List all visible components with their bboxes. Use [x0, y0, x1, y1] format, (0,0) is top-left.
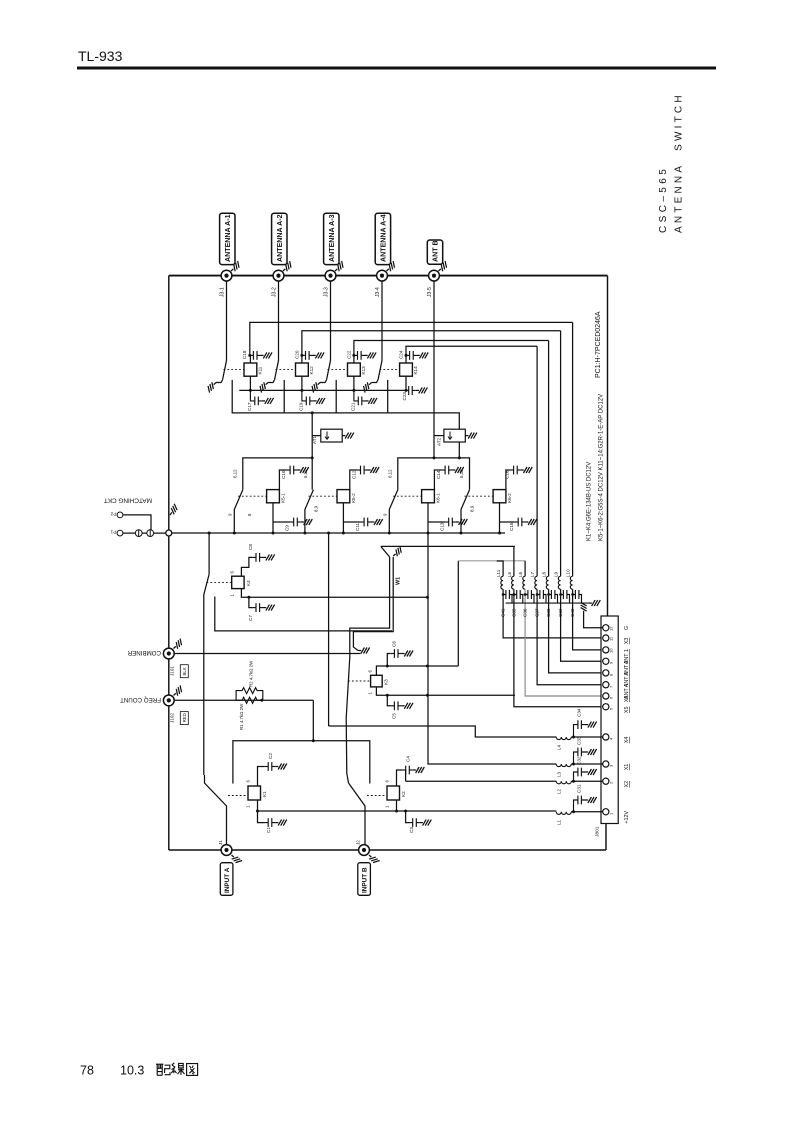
svg-text:C3: C3	[409, 827, 414, 833]
svg-text:AT1: AT1	[312, 435, 317, 444]
junction dot x427 y597	[426, 596, 429, 599]
net bus3 to pin ANT3	[354, 341, 549, 356]
relay cell K3	[346, 641, 515, 719]
antenna label box ANTENNA A-3	[324, 213, 339, 264]
capacitor C31	[574, 784, 586, 812]
svg-text:C23: C23	[402, 392, 407, 401]
svg-text:L8: L8	[542, 571, 547, 577]
wire K1 bottom to rail	[257, 800, 259, 811]
input B label box	[358, 863, 371, 896]
capacitor C11	[361, 518, 372, 527]
dotted link K1	[228, 795, 248, 797]
connector J1 INPUT A	[221, 845, 232, 856]
svg-text:ANTENNA SWITCH: ANTENNA SWITCH	[674, 92, 685, 233]
svg-text:J801: J801	[595, 826, 601, 837]
svg-text:L4: L4	[557, 744, 562, 750]
svg-text:8,9: 8,9	[314, 505, 319, 512]
junction dot K12 bus	[300, 389, 303, 392]
wire K4 top to C8	[241, 557, 252, 576]
svg-text:ANTENNA A-2: ANTENNA A-2	[276, 214, 284, 262]
junction dot K1 rail	[256, 810, 259, 813]
input A label box	[220, 863, 233, 896]
wire freq line to rail drop	[312, 700, 314, 741]
dotted link K6-2	[465, 495, 494, 497]
wire K4 bottom to net	[241, 589, 427, 598]
svg-text:C22: C22	[346, 350, 351, 359]
svg-text:C12: C12	[351, 470, 356, 479]
rail +12V y811	[258, 810, 557, 812]
ground at C3	[420, 820, 432, 826]
switch contact A3	[320, 380, 327, 383]
svg-text:C19: C19	[298, 402, 303, 411]
junction dot rail K5	[311, 456, 314, 459]
svg-text:C39: C39	[558, 608, 563, 617]
ground at C12	[368, 467, 380, 473]
ground at switch A3	[309, 380, 322, 392]
svg-text:INPUT B: INPUT B	[362, 867, 369, 893]
ground at pin12	[581, 602, 587, 614]
capacitor C19	[298, 390, 313, 411]
capacitor C40	[570, 590, 582, 617]
svg-text:X2: X2	[624, 781, 630, 788]
switch blade S-A2	[275, 361, 279, 380]
svg-text:L2: L2	[557, 788, 562, 794]
capacitor C13	[445, 518, 456, 527]
junction dot C5 tap	[386, 694, 389, 697]
junction dot net x427 y666	[426, 665, 429, 668]
ground at J101	[171, 639, 184, 651]
cap row ground bus	[506, 602, 589, 604]
capacitor C7	[248, 597, 263, 621]
ground at C5	[401, 703, 413, 709]
wire antenna column J3-2	[278, 281, 280, 361]
svg-text:C38: C38	[546, 608, 551, 617]
ground at switch A1	[205, 380, 218, 392]
svg-text:L6: L6	[518, 571, 523, 577]
relay output bus y390	[239, 389, 408, 391]
svg-text:8,9: 8,9	[470, 505, 475, 512]
jack P2	[117, 512, 123, 518]
wire antenna column J3-4	[381, 281, 383, 361]
schematic outer border top	[169, 275, 608, 277]
svg-text:CSC–565: CSC–565	[658, 166, 669, 233]
svg-text:K6-2: K6-2	[507, 493, 512, 503]
ground at AT1	[342, 433, 354, 439]
connector J3-4	[377, 270, 388, 281]
pin 1	[603, 809, 630, 824]
relay cell K4	[204, 532, 428, 776]
capacitor C15	[515, 518, 526, 527]
capacitor C6	[387, 641, 401, 666]
svg-text:K11: K11	[258, 366, 263, 374]
svg-text:J3-1: J3-1	[219, 287, 225, 297]
aux net x458	[457, 561, 459, 666]
pin12 stub to ground	[584, 614, 603, 628]
relay K6-2	[493, 490, 506, 503]
antenna label box ANTENNA A-2	[272, 213, 287, 264]
net K5 to L5 column	[381, 546, 515, 557]
wire K5-1 bottom	[273, 503, 290, 533]
ground at switch A4	[361, 380, 374, 392]
svg-text:K5-1: K5-1	[281, 493, 286, 503]
coil L2	[556, 780, 602, 794]
junction dot K2 rail	[395, 810, 398, 813]
switch blade K5-2	[305, 490, 314, 533]
footer kanji 配線図 (drawn strokes)	[156, 1063, 198, 1076]
svg-text:L1: L1	[557, 819, 562, 825]
attenuator AT1	[312, 429, 342, 444]
switch blade S-A4	[378, 361, 382, 380]
relay K2	[387, 786, 400, 800]
svg-text:C34: C34	[577, 708, 582, 717]
capacitor C4	[402, 766, 413, 775]
svg-text:K1: K1	[262, 791, 267, 797]
wire AT1 stub	[312, 435, 321, 437]
svg-text:L9: L9	[554, 571, 559, 577]
wire antenna column J3-5 to AT2	[433, 281, 435, 458]
junction dots on bus533	[233, 532, 236, 535]
coil column L7	[530, 346, 603, 685]
svg-text:J2: J2	[356, 840, 361, 845]
svg-text:C18: C18	[242, 350, 247, 359]
svg-text:C33: C33	[577, 736, 582, 745]
svg-text:C4: C4	[406, 756, 411, 762]
resistor R2 4.7k 2W (parallel loop)	[236, 660, 263, 700]
ground at J3-4	[384, 261, 397, 273]
junction dot rail K6	[458, 456, 461, 459]
relay cell K1	[205, 753, 287, 845]
junction dot K4 net	[247, 596, 250, 599]
capacitor C34	[574, 708, 586, 737]
svg-text:10: 10	[609, 648, 614, 653]
ground at J1	[229, 853, 242, 865]
svg-text:C11: C11	[355, 522, 360, 531]
svg-text:AT2: AT2	[437, 437, 442, 446]
svg-text:C20: C20	[294, 350, 299, 359]
antenna label box ANTENNA A-1	[220, 213, 235, 264]
ground at AT2	[465, 433, 477, 439]
wire bus X4 horizontal	[329, 726, 557, 737]
switch blade S-A1	[223, 361, 227, 380]
switch blade K2	[349, 783, 366, 845]
svg-text:12: 12	[609, 626, 614, 631]
relay K14	[400, 363, 419, 376]
connector J2 INPUT B	[359, 845, 370, 856]
wire antenna column J3-3	[330, 281, 332, 361]
wire K12 to bus	[301, 376, 303, 390]
svg-text:J3-5: J3-5	[427, 287, 433, 297]
coil column L9	[554, 331, 603, 662]
capacitor C5	[387, 695, 401, 719]
capacitor C41	[501, 590, 513, 617]
dotted link K5-1	[238, 495, 267, 497]
connector J102 FREQ COUNT	[163, 695, 174, 706]
svg-text:L11: L11	[496, 569, 501, 577]
capacitor C38	[546, 590, 558, 617]
ground at C23	[416, 387, 428, 393]
svg-text:C41: C41	[501, 608, 506, 617]
connector J3-3	[325, 270, 336, 281]
switch contact A1	[216, 380, 223, 383]
junction dot C22	[352, 354, 355, 357]
ground at C10	[297, 467, 309, 473]
svg-text:6,12: 6,12	[388, 469, 393, 478]
svg-text:C37: C37	[535, 608, 540, 617]
svg-text:10.3: 10.3	[120, 1064, 144, 1078]
switch contact A4	[372, 380, 379, 383]
bracket net from switch contacts to AT bus	[232, 380, 459, 458]
wire K5-2 top to cap	[350, 470, 357, 490]
main bus y533	[169, 532, 505, 534]
svg-text:C10: C10	[281, 470, 286, 479]
svg-text:L10: L10	[566, 569, 571, 577]
dotted link K2	[367, 795, 387, 797]
dotted link K4	[207, 581, 232, 583]
junction dot C6 tap	[386, 665, 389, 668]
ground at C2	[275, 764, 287, 770]
wire K2 bottom to rail	[396, 800, 398, 811]
pin 7	[603, 682, 630, 699]
relay K6-1	[422, 490, 435, 503]
wire P2	[123, 515, 151, 533]
wire P1	[123, 532, 166, 534]
wire AT2 stub	[434, 435, 444, 437]
switch blade K4	[204, 574, 209, 775]
svg-text:C35: C35	[511, 608, 516, 617]
rail feed K5 row	[243, 458, 312, 490]
svg-text:C9: C9	[285, 525, 290, 531]
svg-text:C16: C16	[504, 470, 509, 479]
ground at C11	[371, 519, 383, 525]
net bus4 to pin ANT4	[406, 346, 537, 355]
ground at J3-3	[333, 261, 346, 273]
capacitor C36	[523, 590, 535, 617]
svg-text:+12V: +12V	[624, 810, 630, 823]
svg-text:L5: L5	[507, 571, 512, 577]
ground at C20	[313, 352, 325, 358]
ground at C19	[313, 398, 325, 404]
svg-text:J101: J101	[170, 666, 175, 676]
ground at C21	[365, 398, 377, 404]
connector J3-2	[273, 270, 284, 281]
svg-text:C13: C13	[440, 522, 445, 531]
relay K1	[248, 786, 261, 800]
svg-text:C2: C2	[268, 753, 273, 759]
svg-text:6,12: 6,12	[303, 469, 308, 478]
svg-text:X4: X4	[624, 737, 630, 744]
wire K13 to bus	[353, 376, 355, 390]
wire K6-2 bottom	[500, 503, 515, 533]
svg-text:J1: J1	[218, 840, 223, 845]
connector strip J801	[601, 616, 618, 824]
net bus2 to pin ANT2	[302, 331, 561, 356]
ground at C8	[263, 554, 275, 560]
capacitor C32	[574, 756, 586, 781]
coil column L8	[542, 341, 603, 673]
svg-text:C5: C5	[392, 713, 397, 719]
junction dot R right	[260, 699, 263, 702]
svg-text:C6: C6	[392, 641, 397, 647]
schematic outer border left	[168, 276, 170, 850]
svg-text:W1: W1	[396, 577, 402, 585]
capacitor C37	[535, 590, 547, 617]
chassis ground on border at matching line	[168, 504, 180, 517]
ground at C18	[260, 352, 272, 358]
svg-text:C40: C40	[570, 608, 575, 617]
relay cell K5-2	[303, 466, 383, 533]
capacitor C2	[265, 762, 276, 771]
relay cell K6-2	[459, 466, 537, 533]
wire antenna column J3-1	[226, 281, 228, 361]
coil column L6	[518, 561, 603, 696]
ground at C15	[525, 519, 537, 525]
switch blade S-A3	[327, 361, 331, 380]
wire K6-1 bottom	[428, 503, 445, 533]
svg-text:PC1:H-7PCED0246A: PC1:H-7PCED0246A	[595, 311, 602, 378]
wire K11 to bus	[249, 376, 251, 390]
svg-text:C17: C17	[247, 402, 252, 411]
open junction on border	[166, 530, 172, 536]
header rule	[77, 67, 716, 70]
junction dot antB rail	[433, 456, 436, 459]
ground at C14	[452, 467, 464, 473]
ground at C7	[263, 605, 275, 611]
wire C18 to K11	[249, 355, 251, 363]
wire K3 top net	[376, 666, 458, 675]
svg-text:C14: C14	[436, 470, 441, 479]
net bus X4 y726	[328, 533, 330, 726]
ground at J3-5	[436, 261, 449, 273]
ground at C16	[521, 467, 533, 473]
capacitor C23 on bus end	[402, 386, 416, 401]
svg-text:K5-1~K6-2:G5S-4 DC12V K11~14:: K5-1~K6-2:G5S-4 DC12V K11~14:G2R-1-E-AP …	[599, 394, 605, 541]
jack symbol on P1 line a	[135, 530, 142, 537]
svg-text:C8: C8	[248, 544, 253, 550]
svg-text:ANTENNA A-3: ANTENNA A-3	[328, 214, 336, 262]
wire K2 top to C4 and pin2 feed	[397, 770, 406, 786]
svg-text:ANTENNA A-1: ANTENNA A-1	[224, 214, 232, 262]
relay K3	[371, 675, 383, 687]
ground at C4	[413, 767, 425, 773]
connector J3-1	[221, 270, 232, 281]
connector J101 COMBINER	[163, 648, 174, 659]
junction dot K14 bus	[405, 389, 408, 392]
junction dot C24	[405, 354, 408, 357]
coil L1	[556, 810, 602, 825]
schematic outer border bottom	[169, 849, 606, 851]
wire C20 to K12	[301, 355, 303, 363]
svg-text:C31: C31	[577, 784, 582, 793]
ground at C33	[585, 749, 597, 755]
svg-text:K12: K12	[309, 366, 314, 375]
svg-text:C21: C21	[350, 402, 355, 411]
wire K6-1 top to cap	[434, 470, 441, 490]
pin 4	[603, 734, 630, 743]
dotted link switch A2 to K12	[276, 369, 296, 371]
svg-text:TL-933: TL-933	[78, 48, 123, 64]
capacitor C1	[258, 811, 276, 833]
svg-text:C24: C24	[398, 350, 403, 359]
svg-text:J3-2: J3-2	[271, 287, 277, 297]
wire C24 to K14	[405, 355, 407, 363]
relay cell K5-1	[228, 466, 313, 533]
jack symbol on P1 line b	[147, 530, 154, 537]
pin 11	[603, 635, 630, 644]
pin 10	[603, 647, 630, 664]
capacitor C24	[398, 350, 416, 360]
relay K5-1	[267, 490, 280, 503]
junction dot C20	[300, 354, 303, 357]
pin 6	[603, 693, 630, 702]
svg-text:COMBINER: COMBINER	[127, 649, 161, 656]
svg-text:K14: K14	[413, 366, 418, 375]
switch blade K5-1	[234, 490, 243, 533]
svg-text:6,12: 6,12	[459, 469, 464, 478]
junction dot bus726 left	[327, 532, 330, 535]
capacitor C33	[574, 736, 586, 764]
relay K5-2	[337, 490, 350, 503]
capacitor C35	[511, 590, 523, 617]
wire C22 to K13	[353, 355, 355, 363]
light link line to L11 L6	[458, 560, 525, 562]
wire pin2 feed	[406, 780, 557, 782]
dotted link switch A1 to K11	[224, 369, 245, 371]
ground at switch A2	[257, 380, 270, 392]
ground at J102	[171, 685, 184, 697]
net K6-1 column x427	[428, 533, 556, 764]
ground at C9	[301, 519, 313, 525]
pin 2	[603, 778, 630, 787]
ground at J2	[367, 853, 380, 865]
capacitor C16	[510, 466, 521, 475]
ground at C32	[585, 769, 597, 775]
wire K4 switch aux bracket	[215, 597, 392, 631]
svg-text:J3-3: J3-3	[323, 287, 329, 297]
wire K6-2 top to cap	[506, 470, 510, 490]
ground at C24	[417, 352, 429, 358]
relay K11	[244, 363, 263, 376]
svg-text:G: G	[624, 626, 630, 630]
svg-text:P2: P2	[110, 511, 116, 517]
net bus1 to pin ANT1	[250, 322, 573, 355]
wire K5-1 top to cap	[279, 470, 286, 490]
svg-text:ANTENNA A-4: ANTENNA A-4	[379, 214, 387, 262]
capacitor C14	[442, 466, 453, 475]
wire K3 blade to K2 pivot	[346, 718, 348, 783]
ground at W1 top	[391, 546, 404, 558]
svg-text:C1: C1	[266, 827, 271, 833]
label RED boxed	[180, 712, 188, 725]
svg-text:C7: C7	[248, 615, 253, 621]
svg-text:J102: J102	[170, 713, 175, 723]
coil L3	[556, 763, 602, 778]
ground at C34	[585, 722, 597, 728]
ground at C1	[275, 820, 287, 826]
ground at C22	[365, 352, 377, 358]
dotted link K3	[348, 680, 371, 682]
junction dot AT1 tap	[311, 411, 314, 414]
ground at C17	[262, 398, 274, 404]
connector J3-5	[429, 270, 440, 281]
pin 9	[603, 658, 630, 675]
rail feed K6 row	[398, 458, 470, 490]
relay K13	[348, 363, 367, 376]
svg-text:RED: RED	[182, 713, 187, 722]
coil column L10	[566, 322, 603, 650]
attenuator AT2	[437, 429, 466, 446]
svg-text:L3: L3	[557, 771, 562, 777]
svg-text:ANT B: ANT B	[431, 240, 439, 262]
